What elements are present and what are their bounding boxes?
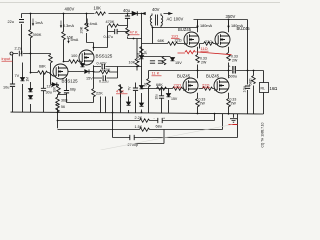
- svg-text:10u: 10u: [3, 86, 9, 90]
- svg-text:BSS125: BSS125: [62, 79, 79, 84]
- svg-text:10u: 10u: [243, 86, 247, 92]
- svg-text:470K: 470K: [102, 68, 111, 72]
- svg-text:68K: 68K: [156, 83, 163, 87]
- svg-text:56: 56: [61, 105, 65, 109]
- svg-text:350V: 350V: [226, 14, 236, 19]
- svg-text:22Ω: 22Ω: [202, 83, 209, 88]
- svg-text:BUZ45: BUZ45: [177, 74, 191, 79]
- svg-text:BSS125: BSS125: [96, 54, 113, 59]
- svg-text:68K: 68K: [158, 39, 165, 43]
- svg-text:0.42V: 0.42V: [97, 62, 107, 66]
- svg-text:16Ω: 16Ω: [270, 86, 278, 91]
- svg-text:10u: 10u: [155, 94, 159, 100]
- svg-text:CQ TH 1988.7.10: CQ TH 1988.7.10: [261, 122, 265, 147]
- svg-text:47 K: 47 K: [130, 30, 139, 35]
- svg-text:15V: 15V: [175, 61, 182, 65]
- svg-text:1mA: 1mA: [35, 21, 43, 25]
- svg-text:470K: 470K: [106, 20, 115, 24]
- svg-text:600u: 600u: [229, 75, 237, 79]
- svg-text:+: +: [229, 65, 231, 69]
- svg-text:BUZ45: BUZ45: [206, 74, 220, 79]
- svg-text:input: input: [2, 56, 12, 61]
- svg-text:7V: 7V: [15, 74, 20, 78]
- svg-text:2W: 2W: [232, 59, 238, 63]
- svg-text:10K: 10K: [53, 86, 57, 93]
- svg-text:11Ω: 11Ω: [171, 34, 178, 39]
- svg-text:180mA: 180mA: [200, 24, 212, 28]
- svg-text:4mA: 4mA: [90, 22, 98, 26]
- svg-text:11 K: 11 K: [152, 71, 160, 76]
- svg-text:2W: 2W: [231, 102, 237, 106]
- svg-text:40V: 40V: [152, 7, 160, 12]
- svg-text:11Ω: 11Ω: [201, 46, 208, 51]
- svg-text:22K: 22K: [96, 92, 103, 96]
- svg-text:1.5K: 1.5K: [135, 125, 143, 129]
- svg-text:15V: 15V: [171, 97, 178, 101]
- svg-text:100: 100: [71, 54, 77, 58]
- svg-text:30u: 30u: [46, 91, 52, 95]
- svg-text:22Ω: 22Ω: [174, 83, 181, 88]
- svg-text:2.2K: 2.2K: [135, 116, 143, 120]
- svg-text:0.3mA: 0.3mA: [63, 24, 74, 28]
- svg-text:2W: 2W: [200, 102, 206, 106]
- svg-text:22Ω: 22Ω: [205, 40, 212, 44]
- svg-text:10K: 10K: [129, 61, 136, 65]
- svg-text:BUZ45: BUZ45: [178, 27, 192, 32]
- svg-text:22Ω: 22Ω: [175, 39, 182, 43]
- svg-text:20K: 20K: [80, 26, 84, 33]
- svg-text:AC 100V: AC 100V: [167, 17, 184, 22]
- svg-text:390K: 390K: [33, 33, 42, 37]
- svg-text:2.2u: 2.2u: [15, 47, 22, 51]
- svg-text:2W: 2W: [201, 61, 207, 65]
- svg-text:1M: 1M: [26, 77, 30, 82]
- svg-text:40u: 40u: [123, 8, 131, 13]
- svg-text:180mA: 180mA: [231, 24, 243, 28]
- svg-text:RL: RL: [261, 87, 266, 91]
- svg-text:22u: 22u: [8, 20, 14, 24]
- svg-text:36Ω: 36Ω: [61, 99, 68, 103]
- svg-text:47 K: 47 K: [116, 89, 125, 94]
- svg-text:68K: 68K: [39, 65, 46, 69]
- svg-text:68p: 68p: [70, 88, 76, 92]
- svg-text:15K: 15K: [67, 36, 74, 40]
- svg-text:0.22u: 0.22u: [99, 80, 109, 84]
- svg-text:+: +: [163, 117, 165, 121]
- svg-text:TL431: TL431: [137, 52, 141, 62]
- svg-text:15V: 15V: [86, 77, 93, 81]
- svg-text:0.47u: 0.47u: [104, 35, 114, 39]
- svg-text:400V: 400V: [65, 7, 75, 12]
- svg-text:68Ω: 68Ω: [249, 78, 253, 85]
- svg-text:68u: 68u: [156, 125, 162, 129]
- svg-text:10K: 10K: [94, 6, 102, 11]
